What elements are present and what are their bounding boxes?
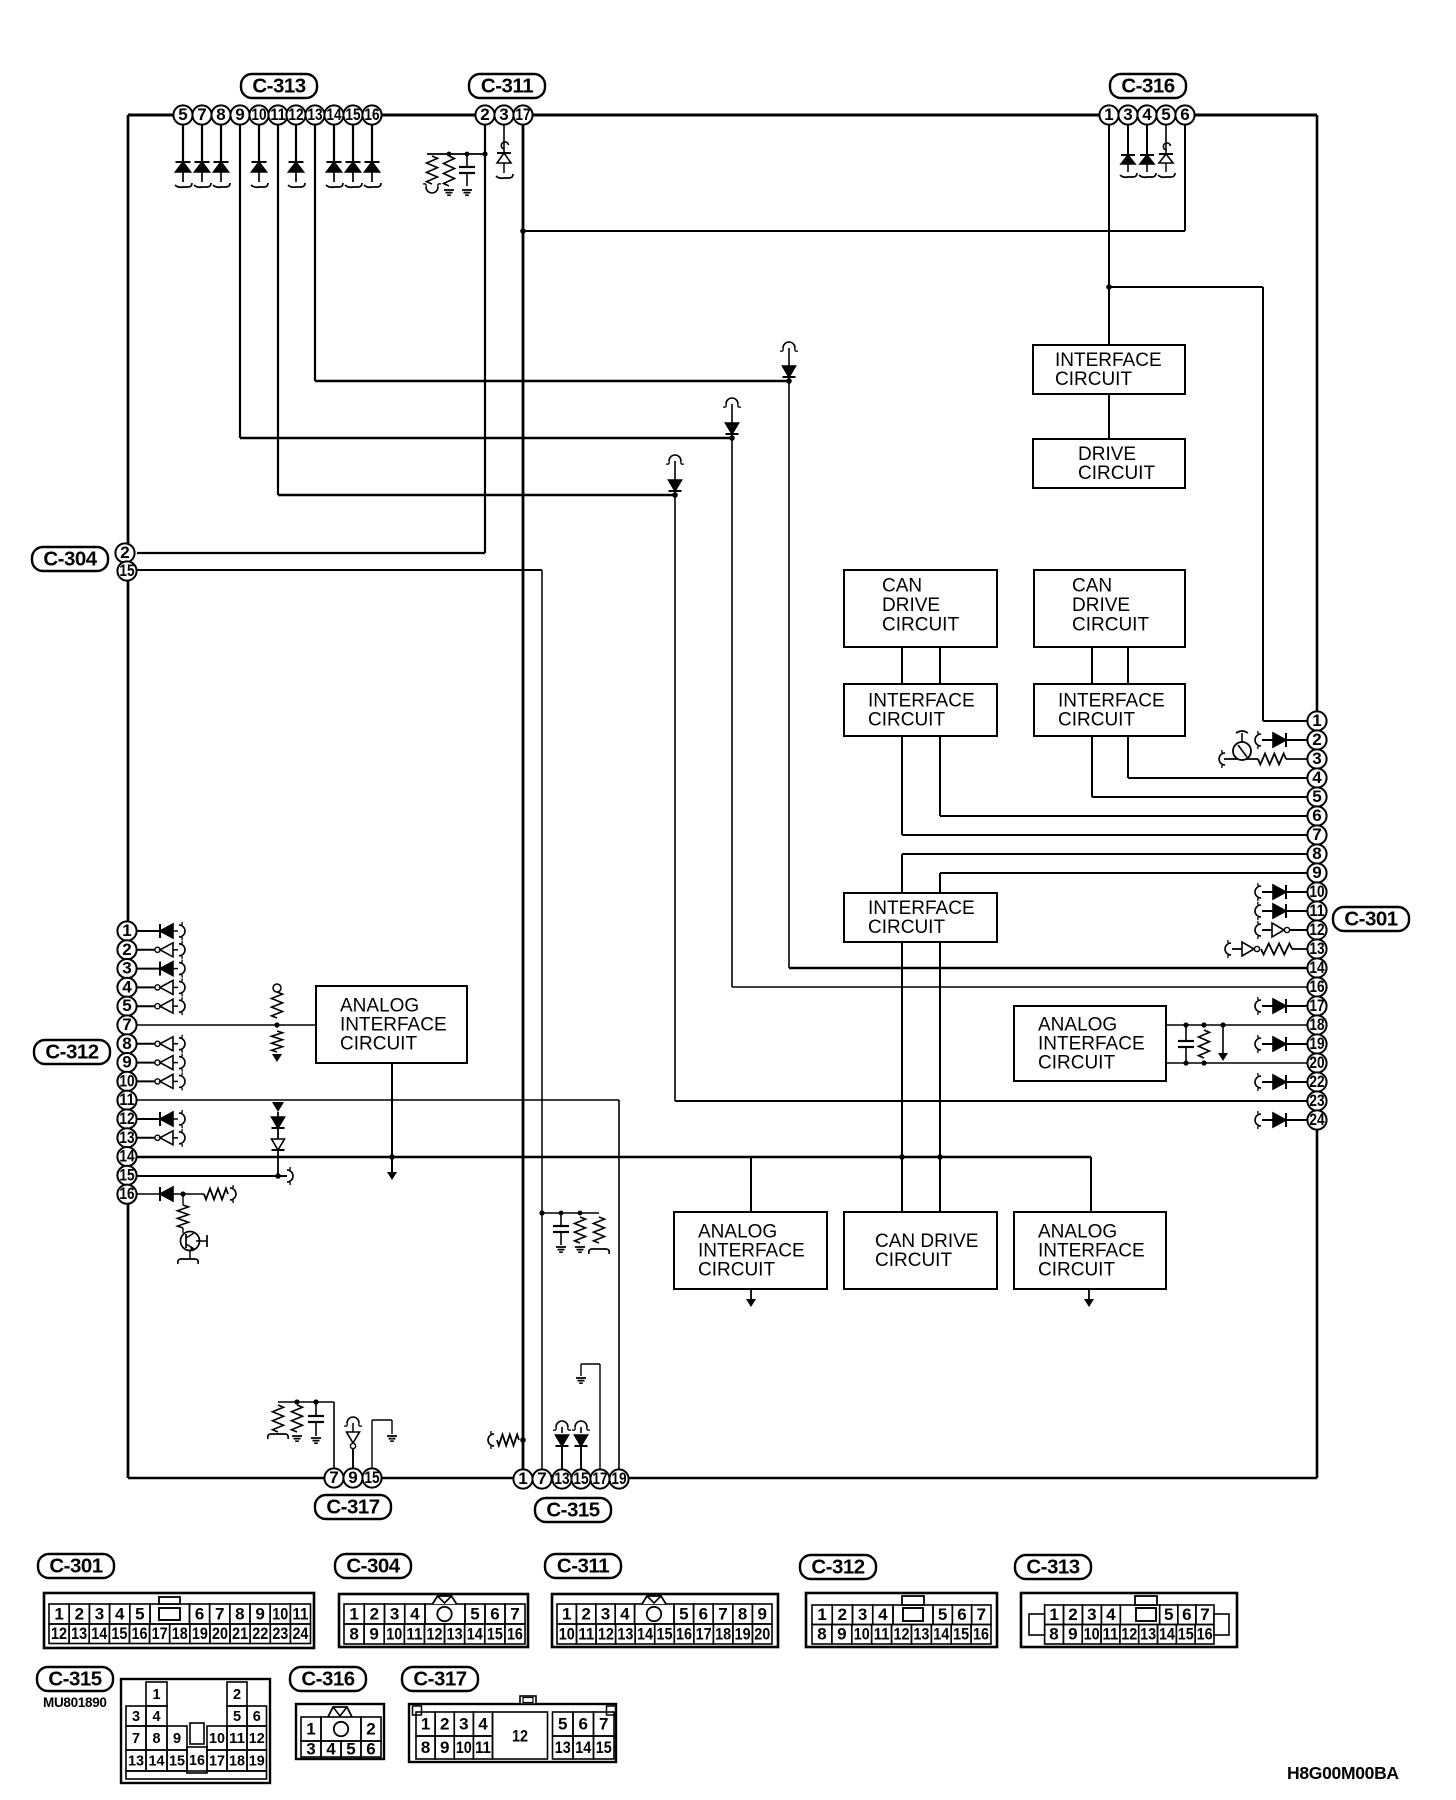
- svg-text:5: 5: [1161, 105, 1170, 124]
- svg-text:11: 11: [229, 1731, 245, 1747]
- svg-text:C-304: C-304: [43, 547, 97, 570]
- svg-text:CIRCUIT: CIRCUIT: [1058, 710, 1135, 731]
- svg-text:CIRCUIT: CIRCUIT: [340, 1034, 417, 1055]
- svg-text:15: 15: [169, 1753, 185, 1769]
- svg-text:4: 4: [478, 1714, 488, 1733]
- svg-text:13: 13: [447, 1624, 463, 1643]
- svg-text:3: 3: [1312, 749, 1321, 768]
- svg-text:15: 15: [657, 1624, 673, 1643]
- svg-text:ANALOG: ANALOG: [1038, 1015, 1117, 1036]
- svg-text:CIRCUIT: CIRCUIT: [882, 615, 959, 636]
- svg-text:6: 6: [253, 1709, 261, 1725]
- svg-text:DRIVE: DRIVE: [1078, 444, 1136, 465]
- svg-text:4: 4: [1142, 105, 1152, 124]
- svg-text:5: 5: [233, 1709, 241, 1725]
- svg-text:INTERFACE: INTERFACE: [1058, 691, 1165, 712]
- svg-text:5: 5: [135, 1604, 144, 1623]
- svg-text:16: 16: [1197, 1625, 1213, 1644]
- svg-text:5: 5: [470, 1604, 479, 1623]
- svg-text:13: 13: [71, 1624, 87, 1643]
- svg-text:3: 3: [390, 1604, 399, 1623]
- svg-text:ANALOG: ANALOG: [340, 996, 419, 1017]
- svg-text:2: 2: [440, 1714, 449, 1733]
- svg-text:CAN DRIVE: CAN DRIVE: [875, 1231, 978, 1252]
- svg-text:6: 6: [699, 1604, 708, 1623]
- svg-text:21: 21: [232, 1624, 248, 1643]
- svg-text:1: 1: [518, 1469, 527, 1488]
- svg-text:9: 9: [255, 1604, 264, 1623]
- svg-text:4: 4: [878, 1605, 888, 1624]
- svg-text:2: 2: [581, 1604, 590, 1623]
- svg-text:24: 24: [1309, 1110, 1325, 1129]
- svg-text:20: 20: [212, 1624, 228, 1643]
- svg-text:20: 20: [754, 1624, 770, 1643]
- svg-text:1: 1: [1312, 711, 1321, 730]
- svg-text:12: 12: [288, 105, 303, 124]
- svg-text:7: 7: [718, 1604, 727, 1623]
- svg-text:7: 7: [599, 1714, 608, 1733]
- svg-text:12: 12: [894, 1625, 910, 1644]
- svg-text:C-316: C-316: [1121, 74, 1174, 97]
- svg-text:INTERFACE: INTERFACE: [1055, 350, 1162, 371]
- svg-text:C-301: C-301: [1344, 907, 1397, 930]
- svg-text:3: 3: [95, 1604, 104, 1623]
- svg-text:19: 19: [611, 1469, 626, 1488]
- svg-text:7: 7: [1312, 825, 1321, 844]
- svg-text:11: 11: [119, 1090, 134, 1109]
- svg-text:11: 11: [475, 1738, 491, 1757]
- svg-text:4: 4: [410, 1604, 420, 1623]
- svg-text:4: 4: [1312, 768, 1322, 787]
- svg-text:CAN: CAN: [1072, 575, 1112, 596]
- svg-text:7: 7: [977, 1605, 986, 1624]
- svg-text:3: 3: [459, 1714, 468, 1733]
- svg-text:6: 6: [1180, 105, 1189, 124]
- svg-text:ANALOG: ANALOG: [698, 1222, 777, 1243]
- svg-text:11: 11: [406, 1624, 422, 1643]
- svg-text:12: 12: [119, 1109, 134, 1128]
- svg-text:14: 14: [1159, 1625, 1175, 1644]
- svg-text:8: 8: [1312, 844, 1321, 863]
- svg-text:1: 1: [152, 1687, 160, 1703]
- svg-text:11: 11: [1102, 1625, 1118, 1644]
- svg-text:CAN: CAN: [882, 575, 922, 596]
- svg-text:4: 4: [326, 1739, 336, 1758]
- svg-text:7: 7: [1200, 1605, 1209, 1624]
- svg-text:16: 16: [676, 1624, 692, 1643]
- svg-text:8: 8: [817, 1625, 826, 1644]
- svg-text:C-311: C-311: [481, 74, 533, 97]
- svg-text:DRIVE: DRIVE: [882, 595, 940, 616]
- svg-text:13: 13: [913, 1625, 929, 1644]
- svg-text:4: 4: [152, 1709, 160, 1725]
- svg-text:19: 19: [192, 1624, 208, 1643]
- svg-text:15: 15: [345, 105, 360, 124]
- svg-text:13: 13: [307, 105, 322, 124]
- svg-text:11: 11: [874, 1625, 890, 1644]
- svg-text:15: 15: [953, 1625, 969, 1644]
- svg-text:15: 15: [573, 1469, 588, 1488]
- svg-text:19: 19: [1309, 1034, 1324, 1053]
- svg-text:11: 11: [578, 1624, 594, 1643]
- svg-text:7: 7: [122, 1015, 131, 1034]
- svg-text:9: 9: [122, 1053, 131, 1072]
- svg-text:1: 1: [1104, 105, 1113, 124]
- svg-text:13: 13: [119, 1128, 134, 1147]
- svg-text:3: 3: [499, 105, 508, 124]
- svg-text:MU801890: MU801890: [43, 1695, 107, 1710]
- svg-text:7: 7: [510, 1604, 519, 1623]
- svg-text:18: 18: [172, 1624, 188, 1643]
- svg-text:2: 2: [122, 940, 131, 959]
- svg-text:17: 17: [152, 1624, 168, 1643]
- svg-text:1: 1: [122, 921, 131, 940]
- svg-text:10: 10: [559, 1624, 575, 1643]
- svg-text:CIRCUIT: CIRCUIT: [1038, 1260, 1115, 1281]
- svg-text:15: 15: [1178, 1625, 1194, 1644]
- svg-text:ANALOG: ANALOG: [1038, 1222, 1117, 1243]
- svg-text:1: 1: [817, 1605, 826, 1624]
- svg-text:8: 8: [216, 105, 225, 124]
- svg-text:6: 6: [1182, 1605, 1191, 1624]
- svg-text:9: 9: [348, 1468, 357, 1487]
- svg-text:INTERFACE: INTERFACE: [868, 898, 975, 919]
- svg-text:1: 1: [349, 1604, 358, 1623]
- svg-text:8: 8: [122, 1034, 131, 1053]
- svg-text:8: 8: [152, 1731, 160, 1747]
- svg-text:14: 14: [933, 1625, 949, 1644]
- svg-text:3: 3: [601, 1604, 610, 1623]
- svg-text:14: 14: [467, 1624, 483, 1643]
- svg-text:5: 5: [938, 1605, 947, 1624]
- svg-text:16: 16: [364, 105, 379, 124]
- svg-text:16: 16: [132, 1624, 148, 1643]
- svg-text:8: 8: [1049, 1625, 1058, 1644]
- svg-text:16: 16: [119, 1184, 134, 1203]
- svg-text:13: 13: [617, 1624, 633, 1643]
- svg-text:2: 2: [233, 1687, 241, 1703]
- svg-text:9: 9: [173, 1731, 181, 1747]
- svg-text:10: 10: [1309, 882, 1324, 901]
- svg-text:14: 14: [1309, 958, 1325, 977]
- svg-text:8: 8: [235, 1604, 244, 1623]
- svg-text:3: 3: [306, 1739, 315, 1758]
- svg-text:23: 23: [1309, 1091, 1324, 1110]
- svg-text:10: 10: [1084, 1625, 1100, 1644]
- svg-text:INTERFACE: INTERFACE: [1038, 1241, 1145, 1262]
- svg-text:INTERFACE: INTERFACE: [340, 1015, 447, 1036]
- svg-text:CIRCUIT: CIRCUIT: [868, 917, 945, 938]
- svg-text:CIRCUIT: CIRCUIT: [698, 1260, 775, 1281]
- svg-text:C-316: C-316: [301, 1667, 354, 1690]
- svg-text:17: 17: [592, 1469, 607, 1488]
- svg-text:3: 3: [1087, 1605, 1096, 1624]
- svg-text:17: 17: [1309, 996, 1324, 1015]
- svg-text:8: 8: [738, 1604, 747, 1623]
- svg-text:14: 14: [91, 1624, 107, 1643]
- svg-text:10: 10: [272, 1604, 288, 1623]
- svg-text:23: 23: [272, 1624, 288, 1643]
- svg-text:2: 2: [1068, 1605, 1077, 1624]
- svg-text:CIRCUIT: CIRCUIT: [1072, 615, 1149, 636]
- svg-text:CIRCUIT: CIRCUIT: [1078, 463, 1155, 484]
- svg-text:9: 9: [440, 1738, 449, 1757]
- svg-text:15: 15: [119, 1165, 134, 1184]
- svg-text:22: 22: [252, 1624, 268, 1643]
- svg-text:5: 5: [178, 105, 187, 124]
- svg-text:4: 4: [115, 1604, 125, 1623]
- svg-text:9: 9: [1068, 1625, 1077, 1644]
- svg-text:C-313: C-313: [1026, 1555, 1079, 1578]
- svg-text:17: 17: [696, 1624, 712, 1643]
- svg-text:8: 8: [421, 1738, 430, 1757]
- svg-text:C-312: C-312: [45, 1040, 98, 1063]
- svg-text:11: 11: [292, 1604, 308, 1623]
- svg-text:18: 18: [1309, 1015, 1324, 1034]
- svg-text:2: 2: [120, 543, 129, 562]
- svg-text:7: 7: [329, 1468, 338, 1487]
- svg-text:20: 20: [1309, 1053, 1324, 1072]
- svg-text:15: 15: [364, 1468, 379, 1487]
- svg-text:10: 10: [119, 1071, 134, 1090]
- svg-text:12: 12: [598, 1624, 614, 1643]
- svg-text:1: 1: [1049, 1605, 1058, 1624]
- svg-text:4: 4: [1106, 1605, 1116, 1624]
- svg-text:16: 16: [973, 1625, 989, 1644]
- svg-text:3: 3: [122, 959, 131, 978]
- svg-text:6: 6: [579, 1714, 588, 1733]
- svg-text:6: 6: [1312, 806, 1321, 825]
- svg-text:12: 12: [1309, 920, 1324, 939]
- svg-text:2: 2: [480, 105, 489, 124]
- svg-text:9: 9: [757, 1604, 766, 1623]
- svg-text:12: 12: [427, 1624, 443, 1643]
- svg-text:14: 14: [326, 105, 342, 124]
- svg-text:6: 6: [366, 1739, 375, 1758]
- svg-text:C-311: C-311: [557, 1554, 609, 1577]
- svg-text:16: 16: [189, 1753, 205, 1769]
- svg-text:15: 15: [119, 561, 134, 580]
- svg-text:2: 2: [838, 1605, 847, 1624]
- svg-text:INTERFACE: INTERFACE: [868, 691, 975, 712]
- svg-text:1: 1: [54, 1604, 63, 1623]
- svg-text:1: 1: [306, 1719, 315, 1738]
- svg-text:C-317: C-317: [413, 1667, 466, 1690]
- svg-text:2: 2: [370, 1604, 379, 1623]
- svg-text:9: 9: [837, 1625, 846, 1644]
- svg-text:6: 6: [195, 1604, 204, 1623]
- svg-text:13: 13: [1309, 939, 1324, 958]
- svg-text:14: 14: [119, 1147, 135, 1166]
- svg-text:19: 19: [249, 1753, 265, 1769]
- svg-text:12: 12: [512, 1726, 528, 1745]
- svg-text:C-313: C-313: [252, 74, 305, 97]
- svg-text:5: 5: [346, 1739, 355, 1758]
- svg-text:5: 5: [122, 996, 131, 1015]
- svg-text:C-301: C-301: [49, 1554, 102, 1577]
- svg-text:C-317: C-317: [326, 1495, 379, 1518]
- svg-text:4: 4: [122, 977, 132, 996]
- svg-text:18: 18: [229, 1753, 245, 1769]
- svg-text:13: 13: [554, 1469, 569, 1488]
- svg-text:2: 2: [1312, 730, 1321, 749]
- svg-text:11: 11: [270, 105, 285, 124]
- svg-text:6: 6: [490, 1604, 499, 1623]
- svg-text:15: 15: [596, 1738, 612, 1757]
- svg-text:CIRCUIT: CIRCUIT: [868, 710, 945, 731]
- svg-text:6: 6: [957, 1605, 966, 1624]
- svg-text:DRIVE: DRIVE: [1072, 595, 1130, 616]
- svg-text:12: 12: [1121, 1625, 1137, 1644]
- svg-text:10: 10: [456, 1738, 472, 1757]
- svg-text:10: 10: [386, 1624, 402, 1643]
- svg-text:CIRCUIT: CIRCUIT: [875, 1250, 952, 1271]
- svg-text:3: 3: [1123, 105, 1132, 124]
- svg-text:13: 13: [1140, 1625, 1156, 1644]
- svg-text:C-312: C-312: [811, 1555, 864, 1578]
- svg-text:22: 22: [1309, 1072, 1324, 1091]
- svg-text:12: 12: [51, 1624, 67, 1643]
- svg-text:16: 16: [507, 1624, 523, 1643]
- svg-text:C-315: C-315: [546, 1498, 599, 1521]
- svg-text:8: 8: [349, 1624, 358, 1643]
- svg-text:C-315: C-315: [48, 1667, 101, 1690]
- svg-text:5: 5: [679, 1604, 688, 1623]
- svg-text:15: 15: [111, 1624, 127, 1643]
- svg-text:4: 4: [620, 1604, 630, 1623]
- svg-text:5: 5: [1164, 1605, 1173, 1624]
- svg-text:14: 14: [149, 1753, 165, 1769]
- svg-text:CIRCUIT: CIRCUIT: [1038, 1053, 1115, 1074]
- svg-text:7: 7: [132, 1731, 140, 1747]
- svg-text:9: 9: [235, 105, 244, 124]
- svg-text:14: 14: [637, 1624, 653, 1643]
- svg-text:10: 10: [251, 105, 266, 124]
- svg-text:10: 10: [854, 1625, 870, 1644]
- svg-text:12: 12: [249, 1731, 265, 1747]
- svg-text:18: 18: [715, 1624, 731, 1643]
- svg-text:17: 17: [209, 1753, 225, 1769]
- svg-text:11: 11: [1309, 901, 1324, 920]
- svg-text:24: 24: [292, 1624, 308, 1643]
- svg-text:10: 10: [209, 1731, 225, 1747]
- svg-text:5: 5: [1312, 787, 1321, 806]
- svg-text:C-304: C-304: [346, 1554, 400, 1577]
- svg-text:17: 17: [515, 105, 530, 124]
- svg-text:7: 7: [197, 105, 206, 124]
- svg-text:5: 5: [558, 1714, 567, 1733]
- svg-text:CIRCUIT: CIRCUIT: [1055, 369, 1132, 390]
- svg-text:1: 1: [421, 1714, 430, 1733]
- svg-text:7: 7: [537, 1469, 546, 1488]
- svg-text:3: 3: [858, 1605, 867, 1624]
- svg-text:15: 15: [487, 1624, 503, 1643]
- svg-text:1: 1: [562, 1604, 571, 1623]
- svg-text:14: 14: [575, 1738, 591, 1757]
- svg-text:9: 9: [1312, 863, 1321, 882]
- svg-text:16: 16: [1309, 977, 1324, 996]
- svg-text:13: 13: [555, 1738, 571, 1757]
- svg-text:INTERFACE: INTERFACE: [1038, 1034, 1145, 1055]
- svg-text:3: 3: [132, 1709, 140, 1725]
- svg-text:H8G00M00BA: H8G00M00BA: [1287, 1763, 1399, 1783]
- svg-text:9: 9: [369, 1624, 378, 1643]
- svg-text:2: 2: [75, 1604, 84, 1623]
- svg-text:2: 2: [366, 1719, 375, 1738]
- svg-text:13: 13: [128, 1753, 144, 1769]
- svg-text:19: 19: [735, 1624, 751, 1643]
- svg-text:7: 7: [215, 1604, 224, 1623]
- svg-text:INTERFACE: INTERFACE: [698, 1241, 805, 1262]
